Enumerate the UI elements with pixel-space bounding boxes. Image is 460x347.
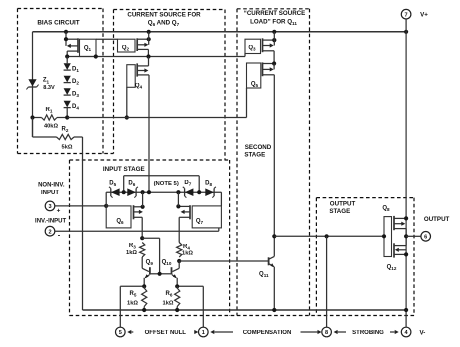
node second stage / compensation <box>272 234 276 238</box>
svg-text:+: + <box>57 207 61 214</box>
wire bias line to Q5 gate <box>67 117 246 119</box>
svg-text:BIAS CIRCUIT: BIAS CIRCUIT <box>37 19 79 26</box>
diode D2 <box>64 76 71 83</box>
svg-text:Q12: Q12 <box>387 264 397 271</box>
svg-text:Q6: Q6 <box>116 219 124 226</box>
svg-text:OUTPUT: OUTPUT <box>424 216 450 223</box>
transistor Q4 <box>127 65 135 88</box>
svg-text:V-: V- <box>420 329 426 336</box>
wire Q4 source tail <box>148 75 150 192</box>
wire pin 8 riser <box>326 236 328 327</box>
svg-text:D7: D7 <box>184 180 191 187</box>
svg-text:Q4: Q4 <box>135 83 143 90</box>
compensation label and arrows <box>210 330 214 334</box>
diode D8 <box>205 188 214 196</box>
svg-text:STROBING: STROBING <box>352 330 384 336</box>
diode D1 <box>64 63 71 70</box>
wire compensation to output gates <box>274 235 384 237</box>
pin 7 V+ <box>401 9 411 19</box>
node Q4 gate / bias line <box>125 115 129 119</box>
svg-text:Q6 AND Q7: Q6 AND Q7 <box>148 20 180 28</box>
transistor Q5 <box>247 63 261 88</box>
svg-text:R6: R6 <box>166 291 173 298</box>
svg-text:6: 6 <box>424 234 427 240</box>
svg-text:8.3V: 8.3V <box>43 85 55 91</box>
wire Q4 gate down to bias line <box>126 87 128 117</box>
node: Q2 drain to rail <box>147 30 151 34</box>
svg-text:D3: D3 <box>72 91 79 98</box>
wire V+ bus right side <box>405 32 407 310</box>
transistor Q10 <box>178 261 180 268</box>
wire diode chain <box>66 57 68 64</box>
wire diode midpoint over-route <box>124 175 200 177</box>
svg-text:D5: D5 <box>109 180 116 187</box>
wire offset null right <box>177 285 203 287</box>
node D4/R1 line <box>65 115 69 119</box>
node R6 to V- rail <box>175 308 179 312</box>
protection diode row wire <box>106 191 221 193</box>
node R1/zener <box>30 115 34 119</box>
svg-text:Q7: Q7 <box>196 219 204 226</box>
svg-text:COMPENSATION: COMPENSATION <box>243 330 292 336</box>
svg-text:“CURRENT SOURCE: “CURRENT SOURCE <box>244 10 306 17</box>
svg-text:1kΩ: 1kΩ <box>127 300 138 306</box>
node output <box>404 234 408 238</box>
node: V+ pin to rail <box>404 30 408 34</box>
svg-text:INPUT: INPUT <box>41 190 59 196</box>
svg-text:40kΩ: 40kΩ <box>44 123 58 129</box>
svg-text:1: 1 <box>202 330 205 336</box>
diode D7 <box>185 188 194 196</box>
svg-text:Z1: Z1 <box>43 78 50 85</box>
zener Z1 <box>28 79 36 86</box>
node Q6 source / R3 <box>140 236 144 240</box>
svg-text:Q5: Q5 <box>251 82 259 89</box>
svg-text:CURRENT SOURCE FOR: CURRENT SOURCE FOR <box>127 12 201 19</box>
svg-text:3: 3 <box>48 204 51 210</box>
current source load for Q11 dashed box <box>237 9 310 316</box>
diode D6 <box>127 188 136 196</box>
node Q11 emitter / V- rail <box>272 308 276 312</box>
svg-text:OFFSET NULL: OFFSET NULL <box>145 330 187 336</box>
V+ top rail <box>33 31 407 33</box>
svg-text:1kΩ: 1kΩ <box>182 251 193 257</box>
wire Q11 base line <box>179 260 268 262</box>
node Q10 emitter / R6 <box>175 284 179 288</box>
outer bottom dashed edge <box>70 315 415 317</box>
node D5 / gate Q6 <box>104 204 108 208</box>
svg-text:R1: R1 <box>46 107 53 114</box>
svg-text:Q8: Q8 <box>382 205 390 212</box>
pin 1 offset null <box>199 327 209 337</box>
wire output to pin 6 <box>406 235 421 237</box>
bias circuit dashed box <box>18 9 104 154</box>
svg-text:1kΩ: 1kΩ <box>126 250 137 256</box>
svg-text:D8: D8 <box>205 180 212 187</box>
svg-text:STAGE: STAGE <box>329 208 350 215</box>
wire offset null left <box>120 285 144 287</box>
svg-text:5kΩ: 5kΩ <box>62 144 73 150</box>
diode D4 <box>64 101 71 108</box>
transistor Q6 <box>106 206 131 228</box>
svg-text:Q10: Q10 <box>162 259 172 266</box>
wire bias left vertical <box>32 32 34 137</box>
wire Q9/Q10 collector riser <box>142 237 159 239</box>
svg-text:R2: R2 <box>62 127 69 134</box>
svg-text:SECOND: SECOND <box>245 144 272 151</box>
node R5 to V- rail <box>142 308 146 312</box>
svg-text:Q2: Q2 <box>122 45 130 52</box>
node compensation pin tap <box>325 234 329 238</box>
svg-text:Q11: Q11 <box>259 272 269 279</box>
current source for Q6 and Q7 dashed box <box>113 10 115 154</box>
svg-text:STAGE: STAGE <box>244 151 265 158</box>
wire second stage vertical <box>273 75 275 257</box>
pin 8 compensation <box>322 327 332 337</box>
svg-text:NON-INV.: NON-INV. <box>38 182 65 188</box>
transistor Q7 <box>192 206 221 228</box>
strobing label and arrows <box>334 330 338 334</box>
transistor Q11 <box>268 257 270 265</box>
svg-text:2: 2 <box>48 229 51 235</box>
svg-text:D2: D2 <box>72 79 79 86</box>
node Q2 source / Q4 drain <box>146 54 150 58</box>
svg-text:Q3: Q3 <box>248 45 256 52</box>
transistor Q9 <box>141 257 143 268</box>
V- bottom rail <box>83 309 407 311</box>
node diode midpoints and sources <box>122 190 126 194</box>
svg-text:INV.-INPUT: INV.-INPUT <box>35 218 66 224</box>
output stage dashed box <box>316 198 414 316</box>
node: Q1 drain to rail <box>64 30 68 34</box>
wire pin3 to Q6 gate <box>55 205 107 207</box>
node: Q3 drain to rail <box>272 30 276 34</box>
svg-text:LOAD” FOR Q11: LOAD” FOR Q11 <box>250 18 297 26</box>
diode D3 <box>64 88 71 95</box>
svg-text:5: 5 <box>119 330 122 336</box>
wire Q1 source / gate bus <box>67 56 245 58</box>
svg-text:V+: V+ <box>420 12 428 19</box>
transistor Q1 <box>80 39 97 56</box>
svg-text:D6: D6 <box>128 180 135 187</box>
wire R2 to V- rail <box>82 137 84 310</box>
svg-text:1kΩ: 1kΩ <box>163 300 174 306</box>
svg-text:D4: D4 <box>72 104 79 111</box>
svg-text:D1: D1 <box>72 66 79 73</box>
transistor Q2 <box>118 39 136 52</box>
wire Q1 gate-box link <box>96 38 118 40</box>
svg-text:(NOTE 5): (NOTE 5) <box>154 181 179 187</box>
svg-text:R5: R5 <box>130 291 137 298</box>
svg-text:8: 8 <box>325 330 328 336</box>
svg-text:OUTPUT: OUTPUT <box>330 201 356 208</box>
transistor Q3 <box>245 39 261 53</box>
wire Q3 gate to bias bus <box>244 54 246 57</box>
node Q9/Q10 collectors <box>158 272 162 276</box>
svg-text:Q9: Q9 <box>146 259 154 266</box>
offset null label and arrows <box>127 330 131 334</box>
pin 5 offset null <box>116 327 126 337</box>
svg-text:7: 7 <box>405 12 408 18</box>
node Q9 emitter / R5 <box>142 284 146 288</box>
svg-text:R3: R3 <box>129 243 136 250</box>
node V- rail end <box>404 308 408 312</box>
node R4 bottom / Q11 base line <box>177 259 181 263</box>
pin 4 V- <box>401 327 411 337</box>
svg-text:Q1: Q1 <box>84 45 92 52</box>
svg-text:INPUT STAGE: INPUT STAGE <box>103 166 145 173</box>
wire pin2 to Q7 gate <box>55 230 219 232</box>
input stage dashed box <box>70 160 230 316</box>
diode D5 <box>111 188 120 196</box>
